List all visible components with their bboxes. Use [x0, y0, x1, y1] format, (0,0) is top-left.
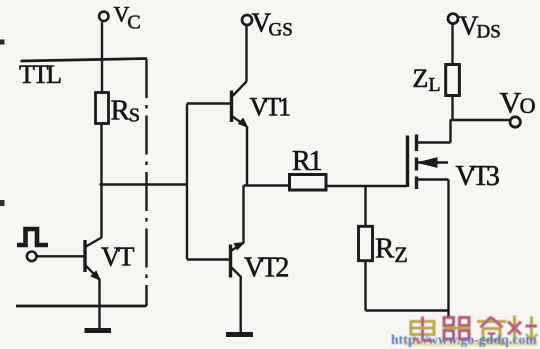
input terminal — [27, 251, 37, 261]
TTL box bottom edge — [16, 305, 147, 308]
wire base coupler vertical — [186, 104, 188, 260]
svg-text:RS: RS — [111, 95, 140, 127]
wire node A bus — [100, 183, 188, 185]
svg-text:VC: VC — [114, 2, 141, 34]
svg-text:VT3: VT3 — [456, 161, 499, 192]
label RZ — [375, 233, 408, 268]
wire node C to RZ — [364, 186, 366, 227]
label RS — [111, 95, 140, 127]
terminal VDS — [448, 14, 458, 24]
label VC — [114, 2, 141, 34]
label R1 — [292, 146, 322, 177]
TTL box right edge (dash-dot) — [145, 59, 147, 306]
watermark — [391, 316, 538, 348]
wire ZL bottom — [451, 96, 453, 120]
svg-text:TTL: TTL — [19, 60, 61, 89]
svg-text:R1: R1 — [292, 146, 322, 177]
wire VGS to VT1 collector — [245, 25, 247, 81]
MOSFET VT3 — [408, 135, 451, 190]
svg-text:VT: VT — [101, 242, 135, 272]
ground (VT emitter) — [85, 328, 112, 333]
label VT1 — [250, 93, 291, 122]
resistor ZL — [446, 65, 460, 96]
svg-text:ZL: ZL — [413, 64, 441, 96]
wire RS to node A — [100, 124, 102, 238]
terminal VC — [99, 12, 108, 21]
wire to VT2 base — [187, 258, 230, 260]
wire R1 to gate — [326, 185, 407, 187]
svg-text:http://www.go-gddq.com: http://www.go-gddq.com — [391, 332, 537, 347]
label ZL — [413, 64, 441, 96]
svg-text:VGS: VGS — [252, 8, 293, 41]
wire VT1 emitter to node B — [246, 127, 248, 186]
svg-text:VT2: VT2 — [244, 253, 288, 284]
svg-text:RZ: RZ — [375, 233, 408, 268]
label VT3 — [456, 161, 499, 192]
wire RZ to source rail — [364, 261, 366, 311]
scan specks at left edge — [0, 40, 5, 207]
transistor VT1 — [232, 82, 248, 128]
terminal VGS — [242, 15, 252, 25]
TTL box top edge — [21, 59, 148, 62]
wire VC to RS — [101, 22, 103, 93]
resistor RZ — [359, 226, 373, 260]
wire VT3 drain — [449, 120, 451, 143]
wire to VT1 base — [187, 102, 231, 104]
ground (VT2 emitter) — [226, 332, 253, 337]
terminal VO — [510, 117, 520, 127]
label TTL — [19, 60, 61, 89]
label VT — [101, 242, 135, 272]
wire VT2 emitter to ground — [239, 276, 241, 332]
label VT2 — [244, 253, 288, 284]
wire input to VT base — [37, 255, 84, 257]
wire bottom source rail — [366, 309, 449, 311]
svg-text:VT1: VT1 — [250, 93, 291, 122]
svg-text:VO: VO — [500, 87, 536, 120]
transistor VT — [85, 238, 102, 281]
svg-text:VDS: VDS — [459, 11, 501, 43]
wire VT3 source down — [447, 180, 449, 317]
label VDS — [459, 11, 501, 43]
label VGS — [252, 8, 293, 41]
label VO — [500, 87, 536, 120]
wire drain node to VO — [451, 119, 511, 121]
wire VT emitter to ground — [98, 280, 100, 330]
pulse input symbol — [17, 229, 48, 245]
resistor RS — [96, 93, 109, 124]
resistor R1 — [290, 175, 327, 191]
transistor VT2 — [231, 243, 244, 278]
wire VT2 collector — [242, 186, 244, 243]
wire VDS to ZL — [451, 24, 453, 64]
wire node B to R1 — [244, 184, 291, 186]
